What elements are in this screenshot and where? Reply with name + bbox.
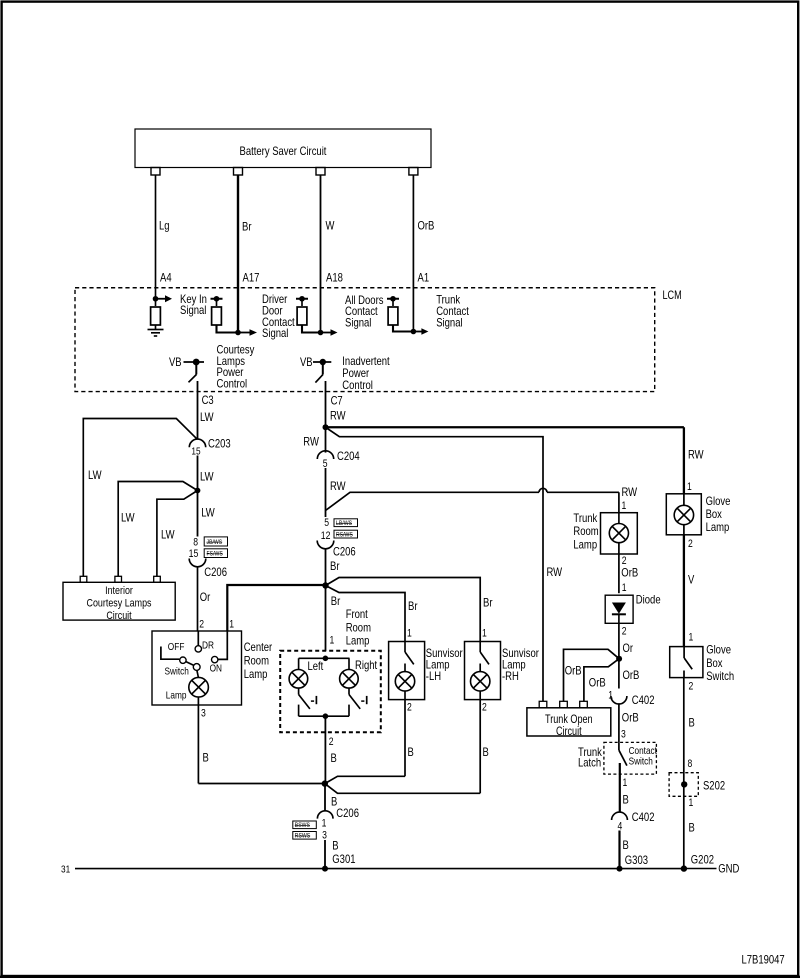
svg-text:Lg: Lg <box>159 219 170 233</box>
svg-text:Circuit: Circuit <box>556 726 582 738</box>
svg-text:Switch: Switch <box>165 665 190 677</box>
svg-text:Glove: Glove <box>706 643 731 657</box>
svg-text:31: 31 <box>61 863 70 875</box>
svg-text:Circuit: Circuit <box>106 610 132 622</box>
svg-text:L7B19047: L7B19047 <box>742 953 785 967</box>
svg-text:Br: Br <box>242 220 252 234</box>
svg-text:Lamp: Lamp <box>346 634 370 648</box>
svg-text:Signal: Signal <box>345 316 371 330</box>
svg-text:OrB: OrB <box>623 668 640 682</box>
svg-text:OFF: OFF <box>168 641 185 653</box>
svg-text:LW: LW <box>201 506 215 520</box>
svg-text:LW: LW <box>200 470 214 484</box>
svg-text:C206: C206 <box>336 806 359 820</box>
svg-text:1: 1 <box>330 635 335 647</box>
svg-text:8: 8 <box>193 537 198 549</box>
svg-text:2: 2 <box>688 538 693 550</box>
svg-text:A1: A1 <box>418 271 430 285</box>
svg-text:C203: C203 <box>208 437 231 451</box>
svg-text:Br: Br <box>483 596 493 610</box>
svg-text:Lamp: Lamp <box>244 667 268 681</box>
svg-text:15: 15 <box>189 548 199 560</box>
svg-text:RW: RW <box>330 479 346 493</box>
svg-text:Battery Saver Circuit: Battery Saver Circuit <box>240 144 327 158</box>
svg-text:Center: Center <box>244 640 273 654</box>
svg-text:Br: Br <box>330 559 340 573</box>
svg-text:A4: A4 <box>160 271 172 285</box>
svg-text:RW: RW <box>547 565 563 579</box>
svg-text:1: 1 <box>622 582 627 594</box>
svg-text:1: 1 <box>622 500 627 512</box>
svg-text:1: 1 <box>229 618 234 630</box>
svg-text:Br: Br <box>408 599 418 613</box>
svg-text:8: 8 <box>688 758 693 770</box>
svg-text:B: B <box>332 839 338 853</box>
svg-text:Lamp: Lamp <box>706 520 730 534</box>
svg-text:1: 1 <box>322 817 327 829</box>
svg-text:DR: DR <box>202 640 214 652</box>
svg-text:Or: Or <box>200 590 211 604</box>
svg-text:OrB: OrB <box>565 663 582 677</box>
svg-text:Switch: Switch <box>629 757 653 768</box>
svg-text:C204: C204 <box>337 449 360 463</box>
svg-text:Trunk Open: Trunk Open <box>545 714 593 726</box>
svg-text:G202: G202 <box>691 853 714 867</box>
svg-text:Br: Br <box>331 594 341 608</box>
svg-text:C402: C402 <box>632 810 655 824</box>
svg-text:Room: Room <box>346 620 371 634</box>
svg-text:Diode: Diode <box>636 592 661 606</box>
svg-text:BSWS: BSWS <box>295 822 311 829</box>
svg-text:LW: LW <box>121 511 135 525</box>
svg-text:1: 1 <box>482 627 487 639</box>
svg-text:Control: Control <box>342 378 373 392</box>
svg-text:2: 2 <box>689 680 694 692</box>
svg-text:Right: Right <box>355 658 378 672</box>
svg-text:Signal: Signal <box>262 326 288 340</box>
svg-text:Front: Front <box>346 607 369 621</box>
svg-text:3: 3 <box>322 829 327 841</box>
svg-text:LB/WS: LB/WS <box>336 520 353 527</box>
svg-text:RS/WS: RS/WS <box>336 531 353 538</box>
svg-text:LW: LW <box>161 528 175 542</box>
svg-text:B: B <box>623 792 629 806</box>
svg-text:OrB: OrB <box>418 219 435 233</box>
svg-text:-LH: -LH <box>426 669 441 683</box>
svg-text:OrB: OrB <box>589 675 606 689</box>
svg-text:2: 2 <box>199 618 204 630</box>
svg-text:3: 3 <box>201 708 206 720</box>
svg-text:B: B <box>623 838 629 852</box>
svg-text:Lamp: Lamp <box>166 689 187 701</box>
svg-text:C3: C3 <box>202 393 214 407</box>
svg-text:OrB: OrB <box>622 710 639 724</box>
svg-text:5: 5 <box>324 517 329 529</box>
svg-text:GND: GND <box>718 861 739 875</box>
svg-text:Trunk: Trunk <box>573 511 598 525</box>
svg-text:1: 1 <box>407 627 412 639</box>
svg-text:Left: Left <box>308 659 324 673</box>
svg-text:-RH: -RH <box>502 669 519 683</box>
svg-text:15: 15 <box>191 446 200 458</box>
svg-text:C206: C206 <box>333 545 356 559</box>
svg-text:2: 2 <box>622 625 627 637</box>
svg-text:ON: ON <box>210 663 222 675</box>
svg-text:1: 1 <box>689 797 694 809</box>
svg-text:Switch: Switch <box>706 669 734 683</box>
svg-text:2: 2 <box>482 701 487 713</box>
svg-text:C206: C206 <box>204 565 227 579</box>
svg-text:LCM: LCM <box>663 288 682 302</box>
svg-text:G303: G303 <box>625 853 648 867</box>
svg-text:2: 2 <box>407 701 412 713</box>
svg-text:Latch: Latch <box>578 756 601 770</box>
svg-text:RW: RW <box>303 435 319 449</box>
svg-text:Glove: Glove <box>706 494 731 508</box>
svg-text:B: B <box>483 745 489 759</box>
svg-text:B: B <box>331 751 337 765</box>
svg-text:VB: VB <box>300 355 313 369</box>
svg-text:RW: RW <box>622 485 638 499</box>
svg-text:3: 3 <box>621 729 626 741</box>
svg-text:RSWS: RSWS <box>295 833 311 840</box>
svg-text:2: 2 <box>329 736 334 748</box>
svg-text:1: 1 <box>689 631 694 643</box>
svg-text:JB/WS: JB/WS <box>207 539 223 546</box>
svg-text:C402: C402 <box>632 693 655 707</box>
svg-text:LW: LW <box>200 410 214 424</box>
svg-text:RW: RW <box>330 409 346 423</box>
svg-text:Interior: Interior <box>105 585 133 597</box>
svg-text:S202: S202 <box>703 778 725 792</box>
svg-text:B: B <box>408 745 414 759</box>
svg-text:Room: Room <box>573 524 598 538</box>
svg-text:LW: LW <box>88 468 102 482</box>
svg-text:G301: G301 <box>332 852 355 866</box>
svg-text:Courtesy Lamps: Courtesy Lamps <box>87 598 152 610</box>
svg-text:A17: A17 <box>243 271 260 285</box>
svg-text:1: 1 <box>623 777 628 789</box>
svg-text:Or: Or <box>623 641 634 655</box>
svg-text:FS/WS: FS/WS <box>207 551 224 558</box>
svg-text:Signal: Signal <box>180 303 206 317</box>
svg-text:B: B <box>689 715 695 729</box>
svg-text:12: 12 <box>321 530 331 542</box>
svg-text:Box: Box <box>706 507 722 521</box>
svg-text:B: B <box>203 751 209 765</box>
svg-text:Room: Room <box>244 653 269 667</box>
svg-text:Box: Box <box>706 656 722 670</box>
svg-text:V: V <box>688 572 694 586</box>
svg-text:RW: RW <box>688 448 704 462</box>
svg-text:A18: A18 <box>326 271 343 285</box>
svg-text:1: 1 <box>687 481 692 493</box>
svg-text:Signal: Signal <box>436 315 462 329</box>
svg-text:Control: Control <box>217 377 248 391</box>
svg-text:B: B <box>689 820 695 834</box>
svg-text:VB: VB <box>169 355 182 369</box>
svg-text:Lamp: Lamp <box>573 537 597 551</box>
svg-text:C7: C7 <box>331 394 343 408</box>
svg-text:Contact: Contact <box>629 746 657 757</box>
svg-text:OrB: OrB <box>621 565 638 579</box>
svg-text:W: W <box>326 219 335 233</box>
